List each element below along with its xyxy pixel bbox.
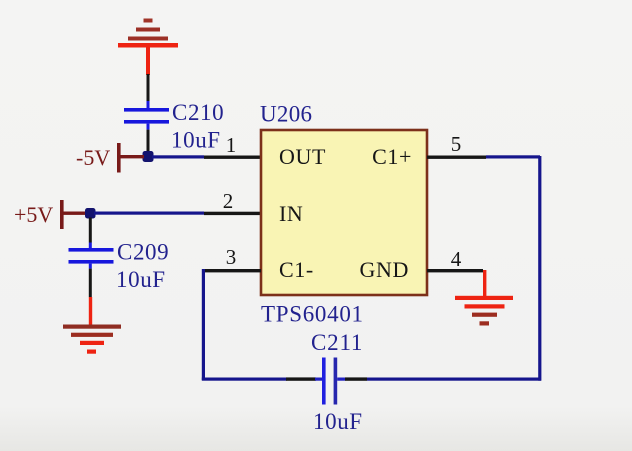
wire pin 4 to ground stem <box>483 270 486 297</box>
svg-text:C211: C211 <box>311 330 363 355</box>
svg-text:C1-: C1- <box>279 257 314 282</box>
junction node -5V <box>143 151 154 162</box>
capacitor C209 <box>69 248 114 264</box>
wire +5V net to pin 2 <box>94 212 204 215</box>
svg-text:4: 4 <box>451 247 462 271</box>
svg-text:10uF: 10uF <box>313 409 363 434</box>
svg-text:C210: C210 <box>172 100 224 125</box>
svg-text:GND: GND <box>360 257 409 282</box>
pin 5 stub <box>427 156 486 159</box>
pin 1 stub <box>204 156 260 159</box>
wire C1- net: left vertical <box>202 269 205 380</box>
svg-text:5: 5 <box>451 132 462 156</box>
svg-text:IN: IN <box>279 201 303 226</box>
wire C211 right lead <box>337 378 345 381</box>
svg-text:1: 1 <box>226 133 237 157</box>
svg-text:10uF: 10uF <box>116 267 166 292</box>
svg-text:C1+: C1+ <box>372 144 412 169</box>
wire C210 top lead <box>147 74 150 109</box>
ground (bottom-left) for C209 <box>63 297 121 354</box>
ground (right) for pin 4 <box>455 296 513 326</box>
wire C209 top lead <box>89 218 92 249</box>
wire -5V net to pin 1 <box>152 155 204 158</box>
svg-text:3: 3 <box>226 245 237 269</box>
svg-text:-5V: -5V <box>76 145 110 170</box>
wire C1- net: bottom horizontal left <box>202 378 287 381</box>
power port -5V <box>117 143 144 173</box>
wire C1+ net: from pin 5 <box>486 155 540 158</box>
wire C1+ net: bottom horizontal right <box>367 378 541 381</box>
svg-text:TPS60401: TPS60401 <box>261 302 364 327</box>
svg-text:U206: U206 <box>260 102 312 127</box>
wire C210 bottom lead <box>147 124 150 153</box>
svg-text:+5V: +5V <box>14 202 53 227</box>
wire C1+ net: right vertical <box>538 156 541 381</box>
pin 4 stub <box>427 269 483 272</box>
pin 2 stub <box>204 212 260 215</box>
ground (top, inverted) above C210 <box>118 19 178 76</box>
pin 3 stub <box>204 269 261 272</box>
svg-text:10uF: 10uF <box>171 128 221 153</box>
svg-text:C209: C209 <box>117 240 169 265</box>
IC U206 body (TPS60401) <box>261 130 427 295</box>
power port +5V <box>60 200 87 229</box>
svg-text:OUT: OUT <box>279 144 326 169</box>
wire C211 left lead <box>286 377 316 380</box>
svg-text:2: 2 <box>223 189 234 213</box>
junction node +5V <box>85 208 96 219</box>
capacitor C211 <box>322 358 337 405</box>
wire C209 bottom lead <box>89 264 92 298</box>
capacitor C210 <box>124 108 169 124</box>
